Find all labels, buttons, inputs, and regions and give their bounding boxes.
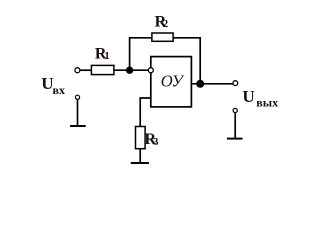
svg-text:2: 2 [163,19,168,30]
wire lower-left terminal down [77,100,79,125]
ground bar under R3 [131,162,149,164]
terminal circle output [233,81,238,86]
ground bar lower-right [227,138,243,140]
resistor R2 [152,33,173,41]
svg-text:U: U [242,87,254,106]
op-amp U1 box [151,57,192,107]
ground bar lower-left [70,125,86,127]
junction dot node A [126,67,133,74]
wire lower-right terminal down [234,113,236,138]
wire op-amp output [191,83,232,85]
svg-text:3: 3 [153,137,158,148]
junction dot output node [196,80,204,88]
wire R1 to op-amp input [114,69,148,71]
svg-text:вх: вх [53,83,65,97]
resistor R1 [91,65,114,74]
wire op-amp second input to R3 [140,98,151,127]
terminal circle lower-left [75,95,79,99]
op-amp inverting input node circle [148,68,153,73]
resistor R3 [136,127,146,149]
wire R3 to ground [139,149,141,163]
svg-text:ОУ: ОУ [161,72,185,91]
wire input terminal to R1 [80,69,91,71]
svg-text:1: 1 [104,51,109,62]
terminal circle input [75,68,80,73]
wire feedback loop (node A up, across to R2, from R2 to output down-leg) [130,38,152,70]
svg-text:вых: вых [256,96,278,110]
terminal circle lower-right [233,108,237,112]
